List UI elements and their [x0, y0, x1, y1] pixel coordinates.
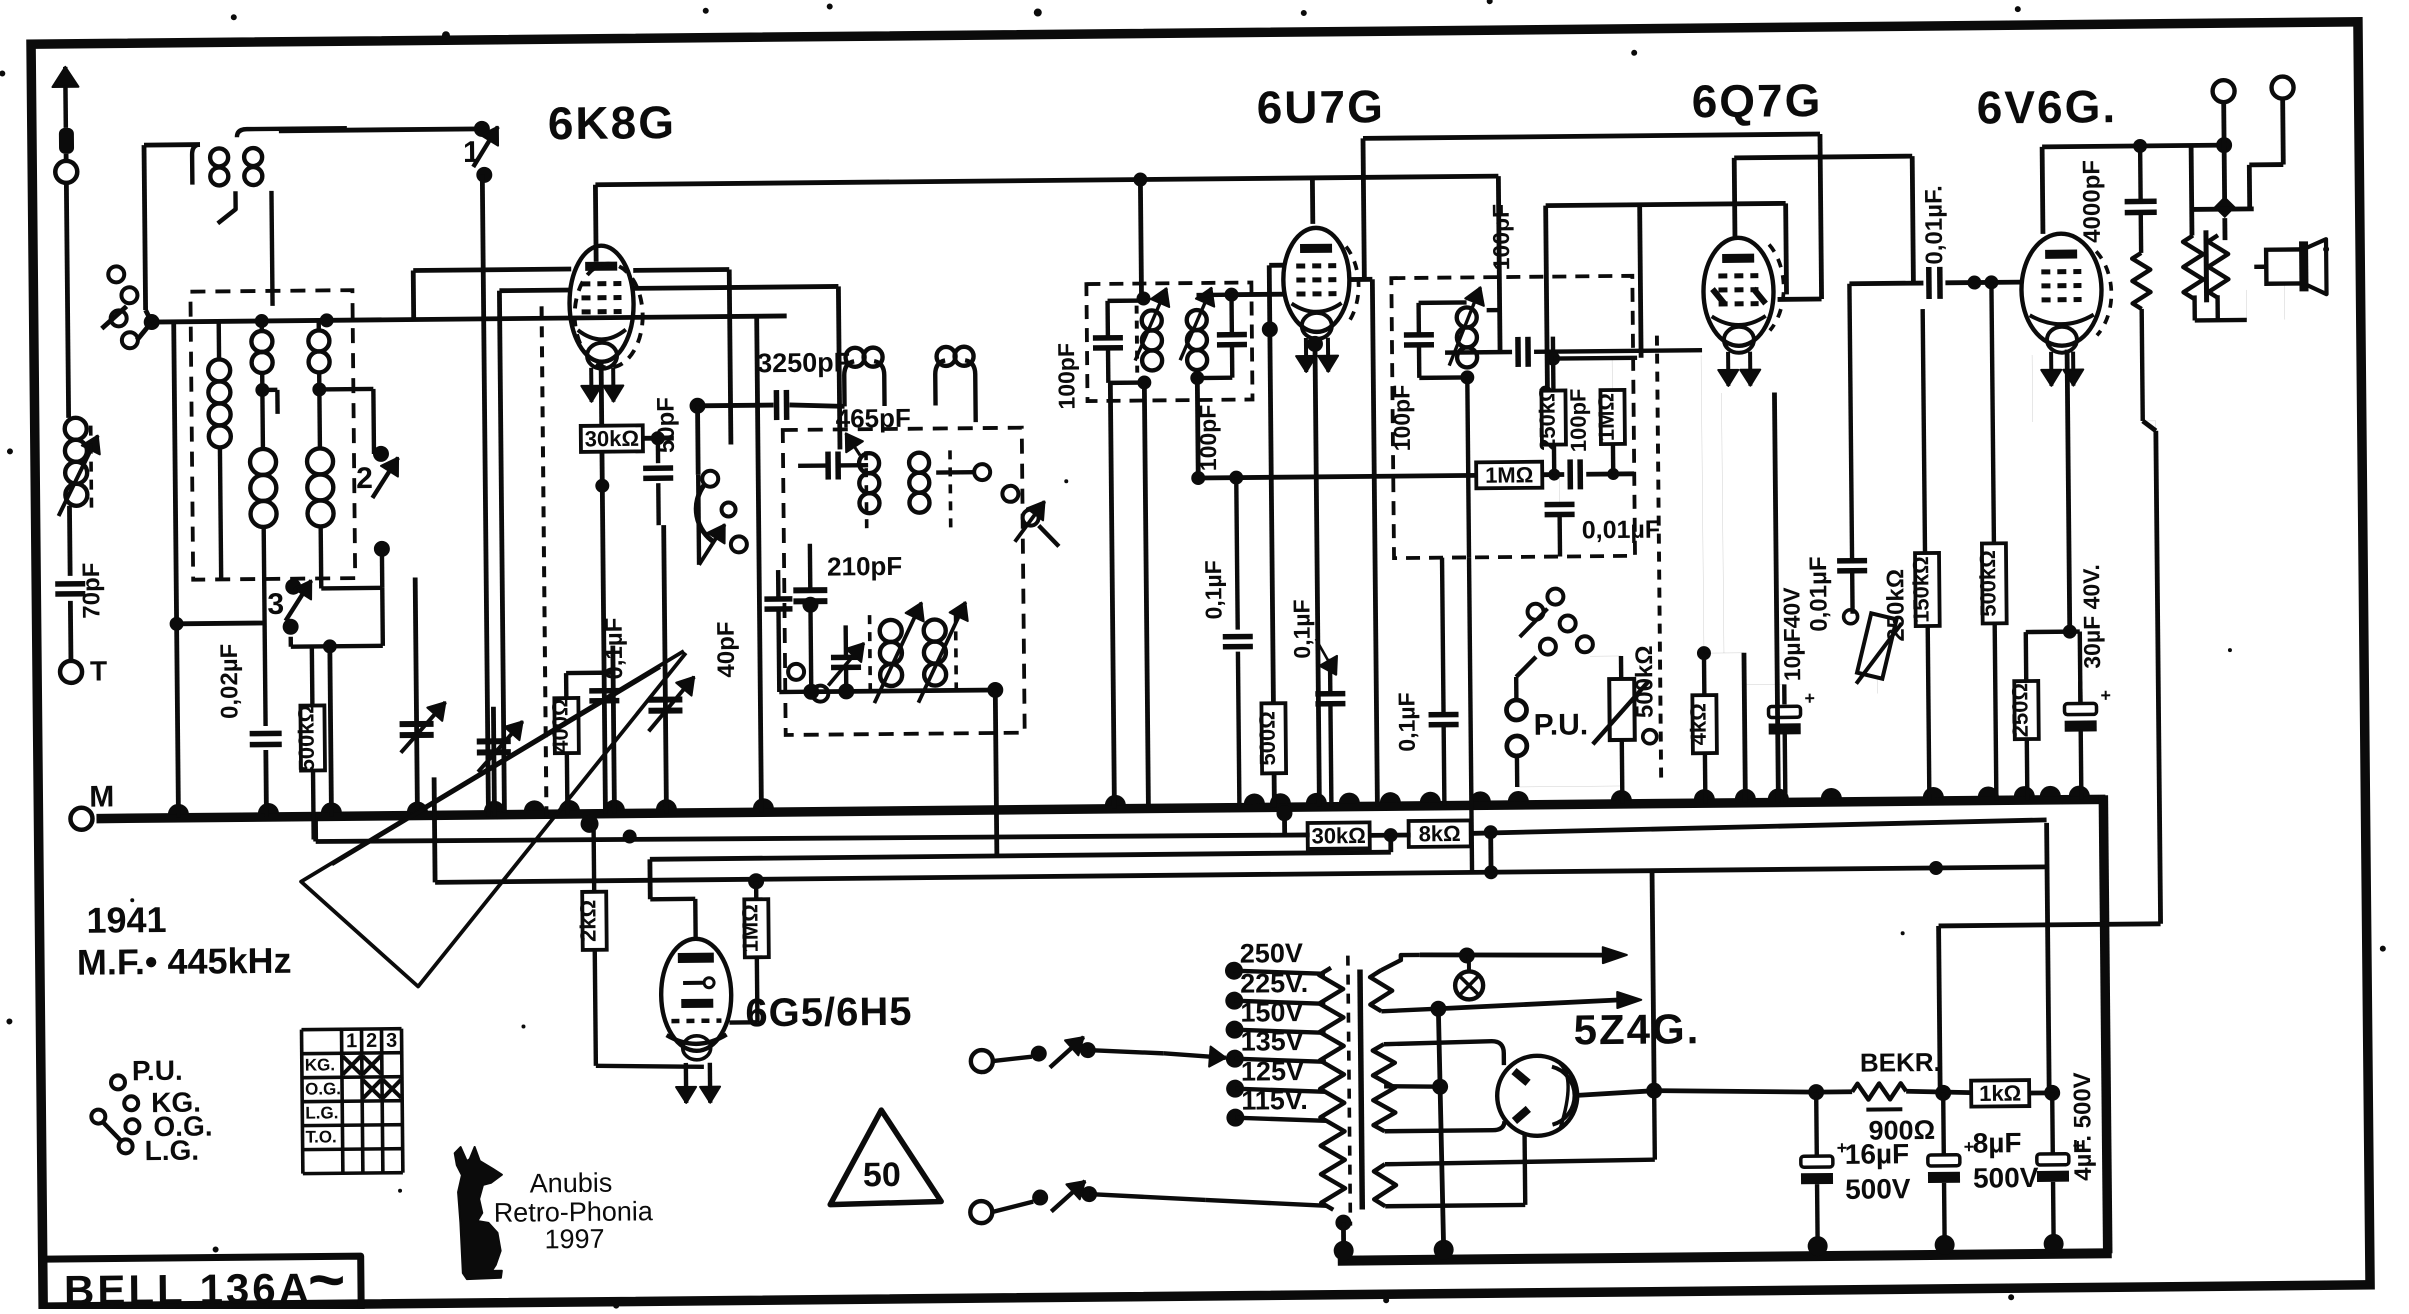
- svg-text:2: 2: [356, 462, 373, 495]
- svg-text:50: 50: [863, 1156, 901, 1194]
- svg-text:3: 3: [267, 588, 284, 621]
- svg-text:0,1µF: 0,1µF: [1288, 599, 1315, 659]
- svg-text:1kΩ: 1kΩ: [1979, 1081, 2021, 1106]
- svg-text:500kΩ: 500kΩ: [293, 705, 319, 772]
- svg-text:0,01µF: 0,01µF: [1582, 516, 1661, 545]
- svg-text:1: 1: [346, 1030, 357, 1052]
- svg-text:70pF: 70pF: [78, 562, 106, 618]
- svg-text:4µF. 500V: 4µF. 500V: [2069, 1072, 2097, 1181]
- svg-text:250kΩ: 250kΩ: [1882, 569, 1910, 642]
- svg-text:250Ω: 250Ω: [2007, 683, 2033, 738]
- svg-text:115V.: 115V.: [1241, 1085, 1308, 1116]
- svg-text:3: 3: [386, 1030, 397, 1052]
- svg-text:M: M: [89, 780, 114, 813]
- svg-text:250kΩ: 250kΩ: [1534, 384, 1560, 451]
- svg-text:100pF: 100pF: [1053, 343, 1080, 410]
- svg-text:0,02µF: 0,02µF: [216, 644, 244, 719]
- svg-text:T: T: [90, 655, 107, 686]
- svg-text:1997: 1997: [544, 1224, 604, 1255]
- svg-text:KG.: KG.: [305, 1055, 335, 1074]
- svg-text:1MΩ: 1MΩ: [1593, 393, 1618, 441]
- svg-text:+: +: [1804, 688, 1815, 708]
- svg-text:P.U.: P.U.: [132, 1055, 183, 1086]
- svg-text:135V: 135V: [1241, 1026, 1304, 1057]
- svg-text:3250pF: 3250pF: [757, 347, 850, 378]
- svg-text:125V: 125V: [1241, 1056, 1304, 1087]
- svg-text:BEKR.: BEKR.: [1860, 1047, 1941, 1078]
- svg-text:100pF: 100pF: [1488, 204, 1515, 271]
- svg-text:8µF: 8µF: [1973, 1127, 2022, 1158]
- svg-text:6K8G: 6K8G: [548, 96, 677, 149]
- svg-text:30kΩ: 30kΩ: [585, 426, 640, 452]
- svg-text:500kΩ: 500kΩ: [1975, 550, 2001, 617]
- svg-text:16µF: 16µF: [1845, 1138, 1910, 1170]
- svg-text:0,01µF.: 0,01µF.: [1920, 185, 1948, 264]
- svg-text:500kΩ: 500kΩ: [1631, 645, 1659, 718]
- svg-text:~: ~: [308, 1243, 346, 1309]
- svg-text:100pF: 100pF: [1565, 388, 1591, 452]
- svg-text:T.O.: T.O.: [305, 1127, 336, 1146]
- svg-text:L.G.: L.G.: [145, 1135, 200, 1167]
- svg-text:10µF40V: 10µF40V: [1778, 587, 1805, 682]
- svg-text:BELL 136A: BELL 136A: [64, 1265, 312, 1309]
- svg-text:0,1µF: 0,1µF: [1200, 560, 1227, 620]
- svg-text:210pF: 210pF: [827, 551, 902, 582]
- svg-text:150V: 150V: [1240, 997, 1303, 1028]
- svg-text:O.G.: O.G.: [305, 1079, 341, 1098]
- svg-text:500Ω: 500Ω: [1254, 711, 1280, 766]
- svg-text:100pF: 100pF: [1388, 385, 1415, 452]
- svg-text:+: +: [2100, 685, 2111, 705]
- svg-text:0,01µF: 0,01µF: [1805, 556, 1833, 631]
- svg-text:1941: 1941: [86, 899, 166, 941]
- svg-text:2: 2: [366, 1030, 377, 1052]
- svg-text:5Z4G.: 5Z4G.: [1573, 1005, 1700, 1053]
- svg-text:225V.: 225V.: [1240, 968, 1308, 999]
- svg-text:6G5/6H5: 6G5/6H5: [745, 990, 913, 1036]
- svg-text:1MΩ: 1MΩ: [1485, 462, 1533, 487]
- svg-text:8kΩ: 8kΩ: [1419, 821, 1461, 846]
- svg-text:6U7G: 6U7G: [1256, 80, 1385, 133]
- svg-text:2kΩ: 2kΩ: [575, 900, 600, 942]
- svg-text:4000pF: 4000pF: [2078, 160, 2106, 243]
- svg-text:30kΩ: 30kΩ: [1311, 823, 1366, 849]
- svg-text:Anubis: Anubis: [530, 1168, 613, 1199]
- svg-text:250V: 250V: [1240, 938, 1303, 969]
- svg-text:0,1µF: 0,1µF: [1393, 692, 1420, 752]
- svg-text:500V: 500V: [1973, 1162, 2039, 1194]
- svg-text:150kΩ: 150kΩ: [1908, 556, 1934, 623]
- svg-text:P.U.: P.U.: [1533, 708, 1588, 742]
- svg-text:500V: 500V: [1845, 1173, 1911, 1205]
- svg-text:1MΩ: 1MΩ: [737, 904, 762, 952]
- svg-text:L.G.: L.G.: [305, 1103, 338, 1122]
- svg-text:1: 1: [463, 136, 480, 169]
- svg-text:40pF: 40pF: [713, 621, 741, 677]
- svg-text:6V6G.: 6V6G.: [1976, 80, 2117, 133]
- svg-text:M.F.• 445kHz: M.F.• 445kHz: [77, 940, 292, 983]
- svg-text:4kΩ: 4kΩ: [1685, 703, 1710, 745]
- svg-text:400Ω: 400Ω: [547, 698, 573, 753]
- svg-text:6Q7G: 6Q7G: [1691, 74, 1822, 127]
